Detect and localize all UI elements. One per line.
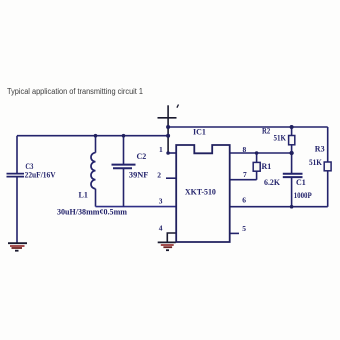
svg-text:6.2K: 6.2K [264,178,281,187]
svg-text:51K: 51K [274,133,287,142]
svg-text:IC1: IC1 [193,128,206,137]
svg-text:22uF/16V: 22uF/16V [25,171,56,180]
svg-text:R2: R2 [262,126,270,135]
svg-text:R3: R3 [315,145,325,154]
svg-text:Typical application of transmi: Typical application of transmitting circ… [7,87,144,96]
svg-text:30uH/38mm¢0.5mm: 30uH/38mm¢0.5mm [57,208,127,217]
svg-text:5: 5 [242,224,246,233]
svg-text:39NF: 39NF [129,171,149,180]
svg-text:4: 4 [159,224,163,233]
svg-text:C2: C2 [137,152,147,161]
svg-text:2: 2 [157,170,161,179]
svg-text:1000P: 1000P [294,191,312,200]
svg-text:XKT-510: XKT-510 [185,188,216,197]
svg-text:6: 6 [242,196,246,205]
svg-text:8: 8 [243,145,247,154]
svg-text:C1: C1 [296,178,306,187]
svg-text:7: 7 [243,170,247,179]
svg-text:R1: R1 [262,162,272,171]
svg-text:51K: 51K [309,158,323,167]
svg-text:L1: L1 [79,191,88,200]
svg-text:1: 1 [159,145,163,154]
svg-text:3: 3 [159,196,163,205]
